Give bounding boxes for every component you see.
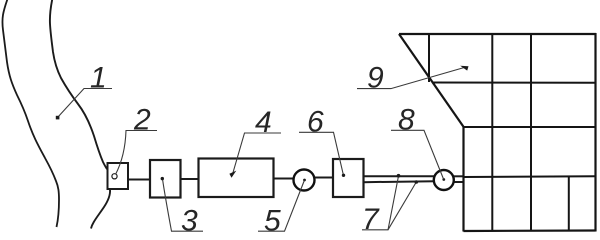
grid horizontal y=82 bbox=[433, 82, 596, 84]
svg-text:5: 5 bbox=[264, 205, 281, 238]
pipe upper line (7) bbox=[363, 175, 435, 177]
wire box3 to box4 bbox=[180, 178, 199, 180]
grid vertical x=569 short bbox=[568, 177, 570, 232]
wire box4 to circle5 bbox=[273, 178, 294, 180]
building left edge lower bbox=[462, 127, 464, 232]
circle inside box 2 bbox=[112, 174, 117, 179]
svg-text:9: 9 bbox=[367, 62, 384, 95]
circle 5 (pump) bbox=[294, 170, 315, 191]
grid vertical x=492 bbox=[491, 34, 493, 231]
wire box2 to box3 bbox=[128, 179, 150, 181]
pipe lower line (7) bbox=[363, 181, 435, 182]
label 7 leaders bbox=[362, 176, 399, 230]
box 4 bbox=[199, 159, 274, 198]
svg-text:6: 6 bbox=[307, 106, 324, 139]
building bottom edge bbox=[464, 229, 596, 232]
svg-text:2: 2 bbox=[133, 104, 151, 137]
wire circle5 to box6 bbox=[315, 177, 335, 179]
grid vertical x=531 bbox=[530, 34, 532, 231]
svg-text:8: 8 bbox=[398, 104, 415, 137]
label 6 leader bbox=[299, 132, 344, 175]
label 5 leader bbox=[258, 181, 304, 232]
pipe stub upper circle8 to building bbox=[453, 175, 464, 177]
box 6 bbox=[333, 159, 364, 197]
label 8 leader bbox=[391, 130, 444, 179]
label 1 leader bbox=[58, 89, 113, 118]
box 2 (intake) bbox=[108, 163, 129, 189]
label 3 leader bbox=[163, 179, 204, 231]
building right edge bbox=[594, 33, 596, 232]
building 9: top edge bbox=[399, 33, 596, 35]
label 9 leader with arrow bbox=[357, 67, 466, 89]
grid horizontal y=177 bbox=[464, 175, 596, 178]
building diagonal edge bbox=[399, 34, 464, 128]
pipe stub lower circle8 to building bbox=[453, 181, 464, 183]
grid horizontal y=127 bbox=[464, 126, 596, 128]
grid vertical x=429 short bbox=[428, 34, 430, 82]
box 3 bbox=[150, 160, 181, 198]
river right bank upper segment bbox=[50, 0, 107, 169]
svg-text:7: 7 bbox=[362, 203, 380, 236]
river right bank lower segment bbox=[91, 190, 110, 229]
svg-text:4: 4 bbox=[255, 106, 272, 139]
river left bank bbox=[2, 0, 59, 227]
svg-text:3: 3 bbox=[181, 205, 198, 238]
circle 8 (pump) bbox=[434, 170, 454, 190]
svg-text:1: 1 bbox=[90, 62, 107, 95]
label 4 leader bbox=[232, 133, 281, 176]
label 2 leader bbox=[116, 131, 158, 175]
